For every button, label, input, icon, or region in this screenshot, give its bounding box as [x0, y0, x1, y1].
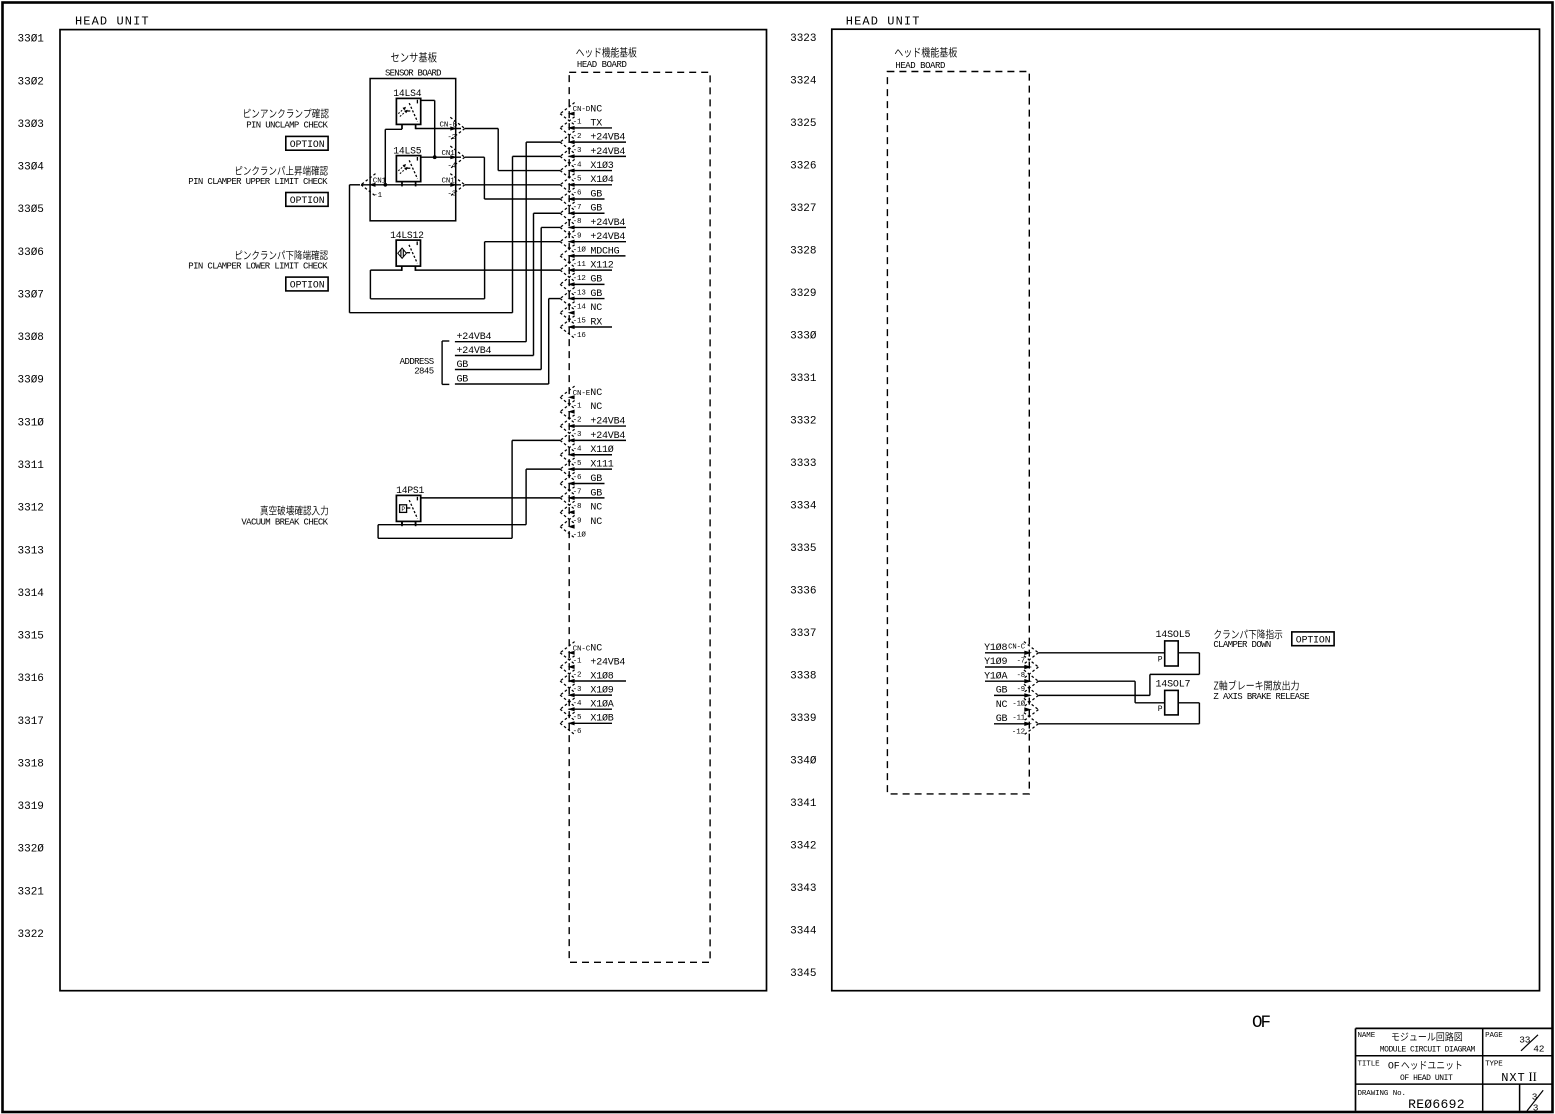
svg-text:CN-E: CN-E [573, 390, 591, 398]
svg-text:-6: -6 [573, 728, 582, 736]
svg-text:2845: 2845 [414, 366, 434, 376]
svg-text:+24VB4: +24VB4 [457, 332, 492, 343]
svg-text:334Ø: 334Ø [790, 755, 817, 767]
svg-text:NC: NC [996, 700, 1008, 711]
svg-text:OF: OF [1388, 1062, 1400, 1073]
svg-text:3336: 3336 [790, 585, 816, 597]
svg-text:14LS4: 14LS4 [393, 88, 421, 99]
svg-text:Z AXIS BRAKE RELEASE: Z AXIS BRAKE RELEASE [1213, 692, 1309, 702]
svg-text:-8: -8 [573, 218, 582, 226]
svg-text:42: 42 [1533, 1044, 1545, 1055]
svg-text:NC: NC [590, 402, 602, 413]
svg-text:HEAD UNIT: HEAD UNIT [846, 15, 921, 29]
svg-text:14SOL7: 14SOL7 [1156, 680, 1191, 691]
svg-text:OF HEAD UNIT: OF HEAD UNIT [1400, 1074, 1453, 1083]
svg-text:33Ø9: 33Ø9 [18, 375, 44, 387]
svg-text:331Ø: 331Ø [18, 417, 45, 429]
svg-text:33Ø6: 33Ø6 [18, 247, 44, 259]
svg-text:-1Ø: -1Ø [573, 246, 587, 255]
svg-text:PAGE: PAGE [1485, 1032, 1503, 1040]
svg-text:3325: 3325 [790, 118, 816, 130]
svg-text:ADDRESS: ADDRESS [400, 357, 434, 367]
svg-text:-5: -5 [573, 714, 582, 722]
svg-text:332Ø: 332Ø [18, 844, 45, 856]
svg-text:3315: 3315 [18, 631, 44, 643]
svg-text:-1: -1 [573, 402, 582, 410]
svg-text:P: P [1158, 705, 1163, 714]
svg-text:3321: 3321 [18, 886, 45, 898]
svg-text:HEAD BOARD: HEAD BOARD [895, 61, 945, 71]
svg-text:OPTION: OPTION [290, 280, 325, 291]
svg-text:CN-C: CN-C [1008, 644, 1026, 652]
svg-text:3323: 3323 [790, 33, 816, 45]
svg-text:-9: -9 [1017, 686, 1025, 694]
svg-text:-9: -9 [573, 517, 582, 525]
svg-text:-2: -2 [447, 134, 456, 142]
svg-text:SENSOR BOARD: SENSOR BOARD [385, 69, 441, 79]
svg-text:-8: -8 [573, 503, 582, 511]
svg-text:-1Ø: -1Ø [573, 531, 587, 540]
svg-text:HEAD BOARD: HEAD BOARD [577, 60, 627, 70]
svg-text:3311: 3311 [18, 460, 45, 472]
svg-text:GB: GB [457, 374, 469, 385]
svg-text:-15: -15 [573, 318, 587, 326]
svg-text:-2: -2 [573, 133, 582, 141]
svg-text:33Ø3: 33Ø3 [18, 119, 44, 131]
svg-text:-5: -5 [573, 176, 582, 184]
svg-text:3326: 3326 [790, 161, 816, 173]
svg-text:-3: -3 [573, 686, 582, 694]
svg-text:3314: 3314 [18, 588, 45, 600]
svg-text:OPTION: OPTION [1296, 635, 1331, 646]
svg-text:33Ø2: 33Ø2 [18, 76, 44, 88]
svg-text:REØ6692: REØ6692 [1408, 1097, 1465, 1112]
svg-text:-4: -4 [573, 161, 582, 169]
svg-text:33Ø8: 33Ø8 [18, 332, 44, 344]
svg-text:OF: OF [1252, 1013, 1271, 1033]
svg-text:NC: NC [590, 303, 602, 314]
svg-text:-4: -4 [447, 163, 456, 171]
svg-text:P: P [1158, 655, 1163, 664]
svg-text:CLAMPER DOWN: CLAMPER DOWN [1213, 640, 1270, 650]
svg-text:TYPE: TYPE [1485, 1061, 1503, 1069]
svg-text:-6: -6 [573, 190, 582, 198]
svg-text:-11: -11 [573, 261, 587, 269]
svg-text:-3: -3 [573, 147, 582, 155]
svg-text:3312: 3312 [18, 503, 44, 515]
svg-text:-1: -1 [573, 119, 582, 127]
svg-text:3341: 3341 [790, 798, 817, 810]
svg-text:OPTION: OPTION [290, 195, 325, 206]
svg-text:PIN CLAMPER LOWER LIMIT CHECK: PIN CLAMPER LOWER LIMIT CHECK [188, 261, 328, 271]
svg-text:3327: 3327 [790, 203, 816, 215]
svg-text:-12: -12 [1012, 729, 1025, 737]
svg-text:-1: -1 [573, 658, 582, 666]
svg-text:-3: -3 [447, 190, 456, 198]
svg-text:-6: -6 [573, 474, 582, 482]
svg-text:+24VB4: +24VB4 [457, 346, 492, 357]
svg-text:MODULE CIRCUIT DIAGRAM: MODULE CIRCUIT DIAGRAM [1380, 1045, 1476, 1054]
svg-text:NC: NC [590, 503, 602, 514]
svg-text:-7: -7 [1017, 658, 1025, 666]
svg-text:-2: -2 [573, 672, 582, 680]
svg-text:-1Ø: -1Ø [1012, 699, 1025, 708]
svg-text:TITLE: TITLE [1358, 1061, 1381, 1069]
svg-text:-5: -5 [573, 460, 582, 468]
svg-text:GB: GB [457, 360, 469, 371]
svg-text:3339: 3339 [790, 713, 816, 725]
svg-text:3338: 3338 [790, 670, 816, 682]
svg-text:33Ø7: 33Ø7 [18, 289, 44, 301]
svg-text:-1: -1 [373, 192, 382, 200]
svg-text:3319: 3319 [18, 801, 44, 813]
svg-text:3: 3 [1533, 1102, 1539, 1113]
svg-text:3337: 3337 [790, 628, 816, 640]
svg-text:3324: 3324 [790, 76, 817, 88]
svg-text:3345: 3345 [790, 968, 816, 980]
svg-text:3316: 3316 [18, 673, 44, 685]
svg-text:NC: NC [590, 644, 602, 655]
svg-text:NC: NC [590, 517, 602, 528]
svg-text:33Ø1: 33Ø1 [18, 34, 45, 46]
svg-text:-2: -2 [573, 417, 582, 425]
svg-text:14SOL5: 14SOL5 [1156, 630, 1191, 641]
svg-text:-3: -3 [573, 431, 582, 439]
svg-text:3329: 3329 [790, 288, 816, 300]
svg-text:-7: -7 [573, 489, 582, 497]
svg-text:-9: -9 [573, 232, 582, 240]
svg-text:-16: -16 [573, 332, 587, 340]
svg-text:-4: -4 [573, 700, 582, 708]
svg-text:3322: 3322 [18, 929, 44, 941]
svg-text:14LS5: 14LS5 [393, 145, 421, 156]
svg-text:CN-C: CN-C [573, 645, 591, 653]
svg-text:OPTION: OPTION [290, 139, 325, 150]
svg-text:DRAWING No.: DRAWING No. [1358, 1090, 1406, 1098]
svg-text:3332: 3332 [790, 416, 816, 428]
svg-text:333Ø: 333Ø [790, 331, 817, 343]
svg-text:-12: -12 [573, 275, 586, 283]
svg-text:P: P [401, 506, 405, 513]
svg-text:PIN CLAMPER UPPER LIMIT CHECK: PIN CLAMPER UPPER LIMIT CHECK [188, 177, 328, 187]
svg-text:3318: 3318 [18, 758, 44, 770]
svg-text:-13: -13 [573, 289, 587, 297]
svg-text:3328: 3328 [790, 246, 816, 258]
svg-text:-8: -8 [1017, 672, 1025, 680]
svg-text:3334: 3334 [790, 500, 817, 512]
svg-text:3335: 3335 [790, 543, 816, 555]
svg-text:14LS12: 14LS12 [390, 230, 424, 241]
svg-text:NAME: NAME [1358, 1032, 1376, 1040]
svg-text:-4: -4 [573, 445, 582, 453]
svg-text:NC: NC [590, 388, 602, 399]
svg-text:3342: 3342 [790, 840, 816, 852]
svg-text:-11: -11 [1012, 715, 1025, 723]
svg-text:3331: 3331 [790, 373, 817, 385]
svg-text:-14: -14 [573, 303, 587, 311]
svg-text:14PS1: 14PS1 [396, 485, 424, 496]
svg-text:NXT: NXT [1501, 1071, 1525, 1085]
svg-text:3313: 3313 [18, 545, 44, 557]
svg-text:PIN UNCLAMP CHECK: PIN UNCLAMP CHECK [246, 121, 328, 131]
svg-text:3317: 3317 [18, 716, 44, 728]
svg-text:33Ø4: 33Ø4 [18, 162, 45, 174]
svg-text:33Ø5: 33Ø5 [18, 204, 44, 216]
svg-text:CN-D: CN-D [573, 106, 591, 114]
svg-text:II: II [1529, 1070, 1537, 1084]
svg-text:-7: -7 [573, 204, 582, 212]
svg-text:3344: 3344 [790, 925, 817, 937]
svg-text:3333: 3333 [790, 458, 816, 470]
svg-text:+24VB4: +24VB4 [590, 657, 625, 668]
svg-text:3343: 3343 [790, 883, 816, 895]
svg-text:NC: NC [590, 104, 602, 115]
svg-text:HEAD UNIT: HEAD UNIT [75, 15, 150, 29]
svg-text:VACUUM BREAK CHECK: VACUUM BREAK CHECK [241, 517, 328, 527]
